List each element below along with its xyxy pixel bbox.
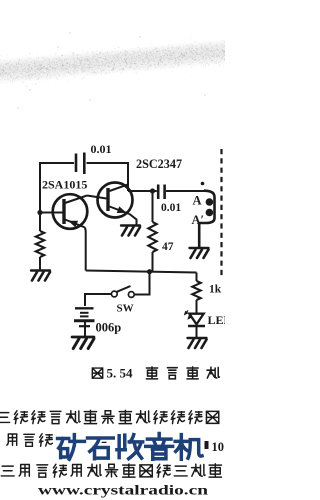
wire bottom bus [86, 271, 197, 273]
wire Q1 emitter down [84, 228, 87, 271]
wire switch to battery [85, 294, 111, 306]
node base junction [37, 210, 42, 215]
transistor Q2 2SC2347 [98, 183, 137, 226]
svg-text:LED: LED [208, 313, 226, 327]
wire Q1 collector to Q2 base [87, 196, 107, 199]
dashed boundary line [220, 149, 222, 276]
svg-text:1k: 1k [209, 284, 222, 296]
battery B1 006P [74, 308, 95, 337]
ground G5 (LED) [188, 338, 207, 348]
svg-text:2SA1015: 2SA1015 [42, 178, 87, 192]
ground G2 (Q2 emitter) [121, 226, 140, 236]
wire LED to ground [196, 327, 198, 338]
svg-text:2SC2347: 2SC2347 [136, 157, 182, 171]
node bus junction [147, 269, 152, 274]
svg-text:0.01: 0.01 [91, 142, 112, 156]
svg-text:5. 54: 5. 54 [107, 366, 134, 381]
inductor/winding A-A prime [199, 191, 214, 248]
body text line 2 [7, 434, 224, 454]
wire R1 to ground [39, 257, 41, 270]
body text line 3 [1, 464, 221, 477]
figure caption 图 5.54 噪声电机 [92, 366, 219, 381]
wire top rail left segment [40, 162, 74, 164]
svg-text:www.crystalradio.cn: www.crystalradio.cn [38, 483, 209, 498]
ground G4 (winding) [190, 248, 209, 258]
svg-text:0.01: 0.01 [161, 202, 181, 214]
wire Q2 collector riser [127, 162, 129, 191]
wire bus to switch [134, 272, 149, 295]
wire R3 to LED [196, 300, 198, 314]
svg-text:47: 47 [162, 241, 174, 253]
svg-text:SW: SW [117, 303, 134, 315]
wire top rail right segment [87, 162, 129, 164]
transistor Q1 2SA1015 [42, 194, 87, 229]
wire left vertical (base feed) [39, 162, 41, 231]
wire bus to R3 [196, 273, 198, 282]
LED D1 [184, 311, 205, 327]
node X junction [150, 188, 155, 193]
svg-text:A: A [193, 194, 202, 208]
ground G3 (battery) [72, 337, 94, 349]
resistor R1 (base bias) [36, 231, 44, 257]
resistor R3 1k [192, 281, 200, 300]
body text line 1 [0, 410, 219, 423]
node polarity dot above coil [201, 182, 205, 186]
capacitor C2 0.01 (output coupling) [153, 185, 206, 200]
svg-text:10: 10 [212, 440, 225, 454]
svg-text:006p: 006p [96, 321, 122, 335]
wire Q2 collector node horizontal [128, 190, 153, 192]
watermark 矿石收音机 [58, 434, 202, 460]
ground G1 [31, 271, 50, 281]
switch SW [111, 286, 134, 297]
capacitor C1 0.01 (feedback) [76, 153, 84, 175]
svg-text:A′: A′ [192, 213, 205, 227]
resistor R2 47 [148, 191, 156, 272]
